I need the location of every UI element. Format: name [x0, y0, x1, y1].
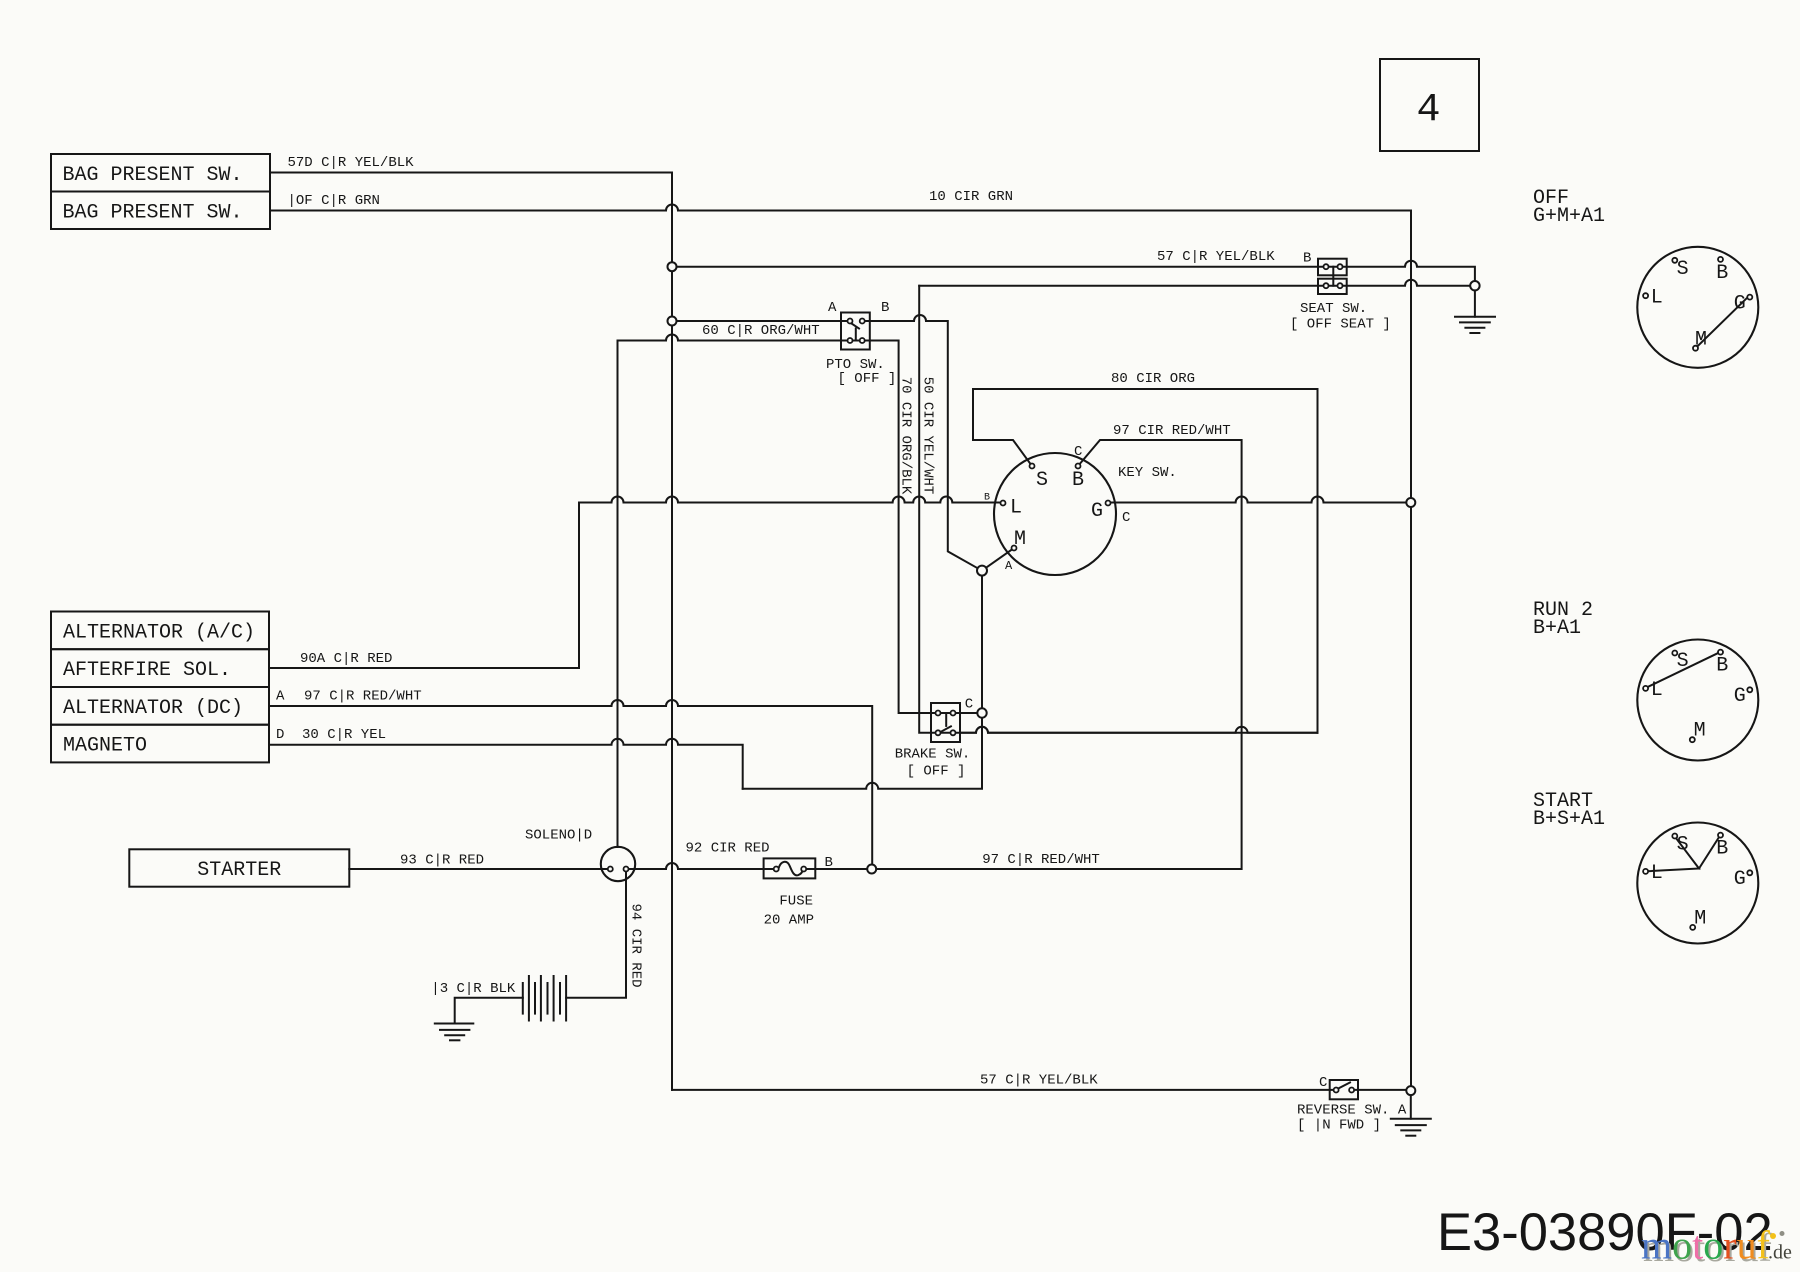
svg-text:M: M — [1695, 329, 1707, 352]
svg-text:BRAKE SW.: BRAKE SW. — [895, 747, 971, 763]
svg-text:B+A1: B+A1 — [1533, 617, 1581, 640]
svg-text:G: G — [1734, 292, 1746, 315]
svg-text:M: M — [1014, 528, 1026, 551]
svg-text:B: B — [1716, 838, 1728, 861]
svg-text:57 C|R YEL/BLK: 57 C|R YEL/BLK — [1157, 249, 1275, 265]
svg-text:C: C — [1074, 444, 1082, 460]
svg-text:|OF C|R GRN: |OF C|R GRN — [288, 193, 380, 209]
svg-text:97 CIR RED/WHT: 97 CIR RED/WHT — [1113, 423, 1231, 439]
svg-text:S: S — [1677, 650, 1689, 673]
svg-text:70 CIR ORG/BLK: 70 CIR ORG/BLK — [898, 377, 914, 495]
svg-text:S: S — [1677, 258, 1689, 281]
svg-text:S: S — [1036, 469, 1048, 492]
svg-text:[ OFF ]: [ OFF ] — [838, 371, 897, 387]
svg-text:[ OFF SEAT ]: [ OFF SEAT ] — [1290, 317, 1391, 333]
svg-text:G: G — [1734, 685, 1746, 708]
svg-text:A: A — [828, 300, 837, 316]
svg-text:20 AMP: 20 AMP — [764, 912, 814, 928]
svg-text:50 CIR YEL/WHT: 50 CIR YEL/WHT — [920, 377, 936, 495]
svg-text:B+S+A1: B+S+A1 — [1533, 808, 1605, 831]
svg-text:ALTERNATOR (A/C): ALTERNATOR (A/C) — [63, 622, 255, 645]
svg-text:C: C — [1319, 1075, 1327, 1091]
svg-text:92 CIR RED: 92 CIR RED — [686, 841, 770, 857]
svg-text:57 C|R YEL/BLK: 57 C|R YEL/BLK — [980, 1073, 1098, 1089]
svg-text:ALTERNATOR (DC): ALTERNATOR (DC) — [63, 697, 243, 720]
svg-text:|3 C|R BLK: |3 C|R BLK — [431, 981, 516, 997]
svg-text:SOLENO|D: SOLENO|D — [525, 827, 592, 843]
svg-text:97 C|R RED/WHT: 97 C|R RED/WHT — [982, 852, 1100, 868]
svg-text:L: L — [1651, 862, 1663, 885]
svg-text:C: C — [965, 697, 973, 713]
svg-text:B: B — [1716, 654, 1728, 677]
svg-text:REVERSE SW. A: REVERSE SW. A — [1297, 1103, 1407, 1119]
svg-text:60 C|R ORG/WHT: 60 C|R ORG/WHT — [702, 323, 820, 339]
svg-text:90A C|R RED: 90A C|R RED — [300, 651, 392, 667]
svg-text:SEAT SW.: SEAT SW. — [1300, 301, 1367, 317]
svg-text:BAG PRESENT SW.: BAG PRESENT SW. — [63, 164, 243, 187]
svg-text:[ |N FWD ]: [ |N FWD ] — [1297, 1118, 1381, 1134]
svg-text:A: A — [276, 689, 285, 705]
svg-text:motoruf: motoruf — [1641, 1223, 1771, 1268]
svg-text:D: D — [276, 727, 284, 743]
svg-text:M: M — [1694, 720, 1706, 743]
svg-text:A: A — [1005, 559, 1013, 573]
svg-text:57D C|R YEL/BLK: 57D C|R YEL/BLK — [288, 155, 415, 171]
svg-text:10 CIR GRN: 10 CIR GRN — [929, 189, 1013, 205]
svg-text:L: L — [1010, 497, 1022, 520]
svg-text:MAGNETO: MAGNETO — [63, 735, 147, 758]
svg-text:.de: .de — [1768, 1242, 1792, 1264]
svg-text:B: B — [1303, 250, 1311, 266]
svg-text:G+M+A1: G+M+A1 — [1533, 205, 1605, 228]
svg-text:B: B — [881, 300, 889, 316]
svg-text:KEY SW.: KEY SW. — [1118, 465, 1177, 481]
svg-text:BAG PRESENT SW.: BAG PRESENT SW. — [63, 202, 243, 225]
svg-text:L: L — [1651, 286, 1663, 309]
svg-text:G: G — [1734, 868, 1746, 891]
svg-text:S: S — [1677, 834, 1689, 857]
svg-text:B: B — [1716, 262, 1728, 285]
svg-text:B: B — [825, 855, 833, 871]
svg-text:G: G — [1091, 500, 1103, 523]
svg-text:B: B — [984, 493, 990, 504]
svg-text:AFTERFIRE SOL.: AFTERFIRE SOL. — [63, 659, 231, 682]
svg-text:4: 4 — [1416, 88, 1440, 133]
svg-text:[ OFF ]: [ OFF ] — [907, 764, 966, 780]
svg-text:L: L — [1651, 679, 1663, 702]
svg-text:B: B — [1072, 469, 1084, 492]
svg-text:94 CIR RED: 94 CIR RED — [628, 903, 644, 987]
svg-text:M: M — [1694, 908, 1706, 931]
svg-text:93 C|R RED: 93 C|R RED — [400, 852, 484, 868]
svg-text:FUSE: FUSE — [779, 893, 813, 909]
svg-text:C: C — [1122, 510, 1130, 526]
svg-text:30 C|R YEL: 30 C|R YEL — [302, 727, 386, 743]
svg-text:STARTER: STARTER — [197, 859, 281, 882]
svg-text:97 C|R RED/WHT: 97 C|R RED/WHT — [304, 689, 422, 705]
svg-text:80 CIR ORG: 80 CIR ORG — [1111, 371, 1195, 387]
